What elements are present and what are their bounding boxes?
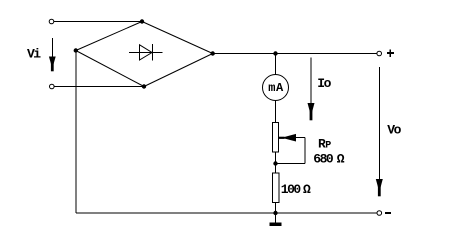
svg-text:Vo: Vo	[387, 123, 401, 138]
terminal top-left input	[49, 19, 54, 24]
wire pot bottom through node to resistor top	[275, 152, 277, 173]
bridge rectifier diamond	[76, 22, 213, 87]
potentiometer RP body	[273, 123, 279, 153]
svg-text:mA: mA	[268, 81, 284, 95]
meter mA	[263, 75, 289, 101]
terminal output -	[377, 211, 382, 216]
node bridge left vertex	[74, 48, 78, 52]
wire bottom-left input to bridge bottom vertex	[54, 86, 144, 88]
wire top-left input to bridge top vertex	[54, 21, 142, 23]
wire top rail from bridge right vertex to + terminal	[213, 53, 377, 55]
terminal bottom-left input	[50, 84, 55, 89]
arrow Io current	[308, 58, 315, 121]
svg-text:100: 100	[281, 182, 302, 197]
ground	[270, 213, 282, 226]
wire bottom rail	[76, 212, 377, 214]
svg-text:Io: Io	[317, 76, 331, 91]
label 680 ohm	[313, 151, 345, 166]
node bottom rail junction	[273, 211, 277, 215]
resistor R 100 ohm body	[273, 173, 280, 203]
wire resistor bottom to bottom rail	[275, 203, 277, 214]
node wiper junction	[273, 161, 277, 165]
node bridge bottom vertex	[142, 84, 146, 88]
node bridge right vertex	[211, 51, 215, 55]
potentiometer RP wiper arrow	[276, 134, 305, 164]
wire junction to meter top	[275, 54, 277, 76]
label RP	[318, 137, 331, 152]
label 100 ohm	[281, 182, 311, 197]
arrow Vi polarity	[49, 38, 56, 71]
node bridge top vertex	[140, 19, 144, 23]
diode D inside bridge	[129, 44, 163, 60]
wire left vertex down to bottom rail	[75, 51, 77, 214]
label -	[385, 212, 391, 214]
svg-text:Vi: Vi	[27, 47, 41, 62]
svg-text:680: 680	[313, 151, 334, 166]
node top rail junction above meter	[273, 51, 277, 55]
arrow Vo polarity	[376, 67, 383, 196]
terminal output +	[377, 51, 382, 56]
wire meter bottom to potentiometer top	[275, 101, 277, 123]
label +	[387, 49, 394, 56]
